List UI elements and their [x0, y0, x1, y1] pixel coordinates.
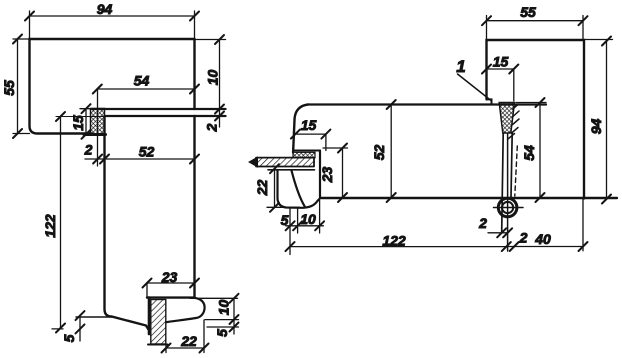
- frame jamb outline: [487, 40, 585, 199]
- dim 5 and 10 bottom: [286, 198, 324, 255]
- weatherstrip left edge: [148, 298, 151, 334]
- nose top edge: [268, 169, 315, 171]
- dim 55 top right: [487, 16, 584, 41]
- svg-text:55: 55: [520, 4, 536, 20]
- leaf bottom block top edge: [147, 296, 195, 298]
- seal whiskers: [508, 104, 519, 139]
- svg-text:55: 55: [1, 80, 17, 96]
- hinge leaf lines: [502, 133, 513, 233]
- svg-text:54: 54: [134, 73, 150, 89]
- dim 54 right: [516, 103, 546, 198]
- leaf left end rounded corner: [293, 105, 308, 153]
- hinge crosshair: [494, 207, 524, 209]
- svg-text:2: 2: [478, 215, 487, 231]
- svg-text:122: 122: [42, 214, 58, 238]
- leaf top edge line: [105, 115, 226, 117]
- leaf top extension line left: [56, 116, 105, 118]
- nose inner taper diagonal: [292, 171, 306, 207]
- svg-text:10: 10: [205, 70, 221, 86]
- dense block above bar end: [293, 152, 315, 158]
- svg-text:23: 23: [319, 167, 335, 184]
- frame seal (hatched): [499, 103, 514, 134]
- svg-text:15: 15: [301, 117, 317, 133]
- dim 10 bottom right: [190, 298, 239, 334]
- leaf edge step: [293, 150, 320, 152]
- frame head seal (hatched): [91, 109, 105, 136]
- svg-text:10: 10: [300, 211, 316, 227]
- frame head profile outline: [30, 39, 195, 134]
- leaf left edge with bottom taper: [105, 116, 149, 330]
- astragal bar hatched: [256, 158, 314, 167]
- dim 2 hinge: [488, 232, 508, 234]
- dim 52 right: [390, 105, 392, 198]
- hidden groove dashed line: [515, 146, 518, 196]
- svg-text:94: 94: [97, 1, 113, 17]
- frame rebate bottom face line: [92, 108, 226, 110]
- svg-text:10: 10: [216, 300, 232, 316]
- svg-text:23: 23: [161, 269, 178, 285]
- svg-text:40: 40: [534, 231, 551, 247]
- leaf rebate edge: [319, 151, 321, 198]
- svg-text:52: 52: [139, 144, 155, 160]
- dim 5 bottom left: [79, 316, 81, 341]
- svg-text:2: 2: [84, 142, 93, 158]
- leaf top face line: [308, 103, 546, 105]
- long bottom line (leaf bottom / frame rebate): [322, 197, 618, 199]
- svg-text:15: 15: [493, 54, 509, 70]
- svg-text:2: 2: [519, 230, 528, 246]
- dim 122: [52, 117, 63, 329]
- dim 5 bottom right: [230, 323, 239, 332]
- dim 15 seal: [80, 109, 92, 135]
- dim 94 top: [30, 11, 195, 39]
- dim 2 second: [506, 246, 514, 248]
- dim 23 bottom: [147, 283, 195, 298]
- svg-text:1: 1: [456, 57, 465, 76]
- dim 94 right: [584, 40, 613, 200]
- nose rounded shape: [278, 170, 321, 208]
- dim 15 leaf edge: [295, 134, 326, 150]
- dim 22 bottom: [166, 320, 204, 353]
- bottom rail rounded nose: [166, 298, 204, 322]
- dim 2 gap right: [215, 112, 224, 121]
- dim 54: [97, 89, 194, 166]
- svg-text:52: 52: [371, 145, 387, 161]
- svg-text:122: 122: [382, 233, 406, 249]
- svg-text:22: 22: [180, 333, 197, 349]
- dim 52: [105, 158, 195, 160]
- dim 22 right: [267, 169, 299, 208]
- leaf right edge: [193, 116, 195, 298]
- svg-text:5: 5: [214, 329, 230, 337]
- dim 40: [514, 199, 583, 251]
- weatherstrip bottom cap: [148, 344, 168, 346]
- dim 10 upper right: [195, 40, 226, 128]
- dim 15 frame: [487, 69, 514, 101]
- label 1 with leader: [458, 74, 492, 101]
- dim 55 left: [13, 39, 30, 134]
- hinge axis line: [507, 134, 509, 251]
- svg-text:2: 2: [204, 123, 220, 132]
- hinge knuckle circle: [498, 198, 517, 217]
- svg-text:94: 94: [588, 119, 604, 135]
- frame rebate notch: [487, 99, 492, 104]
- dim 122 right: [290, 246, 506, 248]
- dim 23 right: [323, 148, 348, 198]
- svg-text:22: 22: [254, 180, 270, 197]
- leaf bottom face extension left: [76, 316, 112, 318]
- svg-text:54: 54: [521, 145, 537, 161]
- weatherstrip hatched body: [151, 300, 166, 345]
- svg-text:15: 15: [70, 115, 86, 131]
- svg-text:5: 5: [61, 334, 77, 342]
- dim 2 seal gap: [85, 158, 105, 160]
- svg-text:5: 5: [281, 212, 289, 228]
- frame head right edge: [193, 39, 195, 109]
